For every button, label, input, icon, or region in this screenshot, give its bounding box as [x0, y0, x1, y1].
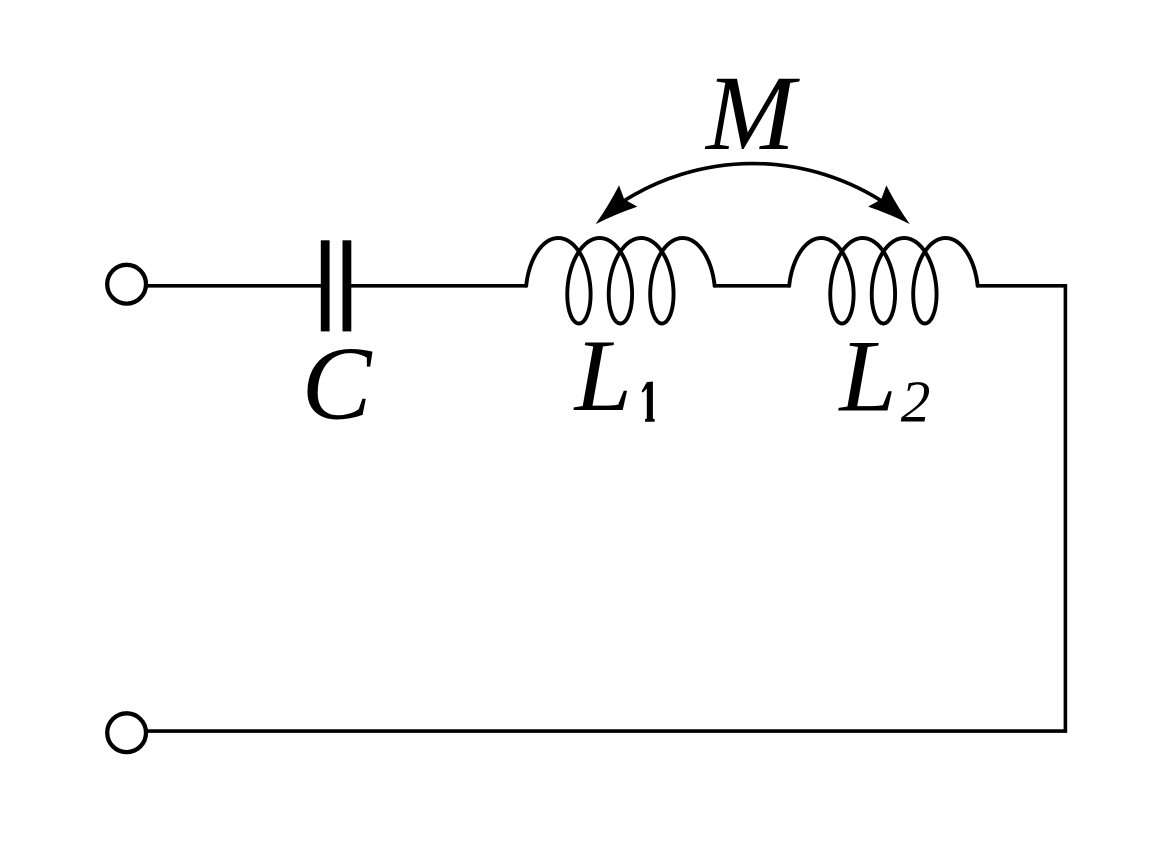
- mutual coupling arc: [618, 164, 887, 205]
- wire capacitor to L1: [351, 284, 526, 288]
- svg-text:L: L: [573, 319, 632, 433]
- svg-text:L: L: [837, 320, 896, 434]
- terminal top-left: [107, 265, 146, 304]
- arrowhead left: [596, 185, 638, 224]
- inductor L1: [526, 238, 714, 324]
- svg-text:2: 2: [901, 369, 931, 435]
- capacitor C left plate: [321, 240, 330, 331]
- wire L2 right then down then bottom: [148, 286, 1065, 731]
- svg-text:M: M: [704, 55, 800, 173]
- terminal bottom-left: [107, 713, 146, 752]
- arrowhead right: [868, 185, 910, 224]
- label L1 subscript 1: [642, 382, 655, 422]
- wire terminal to capacitor: [148, 284, 321, 288]
- svg-text:C: C: [302, 326, 373, 442]
- wire L1 to L2: [715, 284, 790, 288]
- capacitor C right plate: [343, 240, 352, 331]
- inductor L2: [789, 238, 977, 324]
